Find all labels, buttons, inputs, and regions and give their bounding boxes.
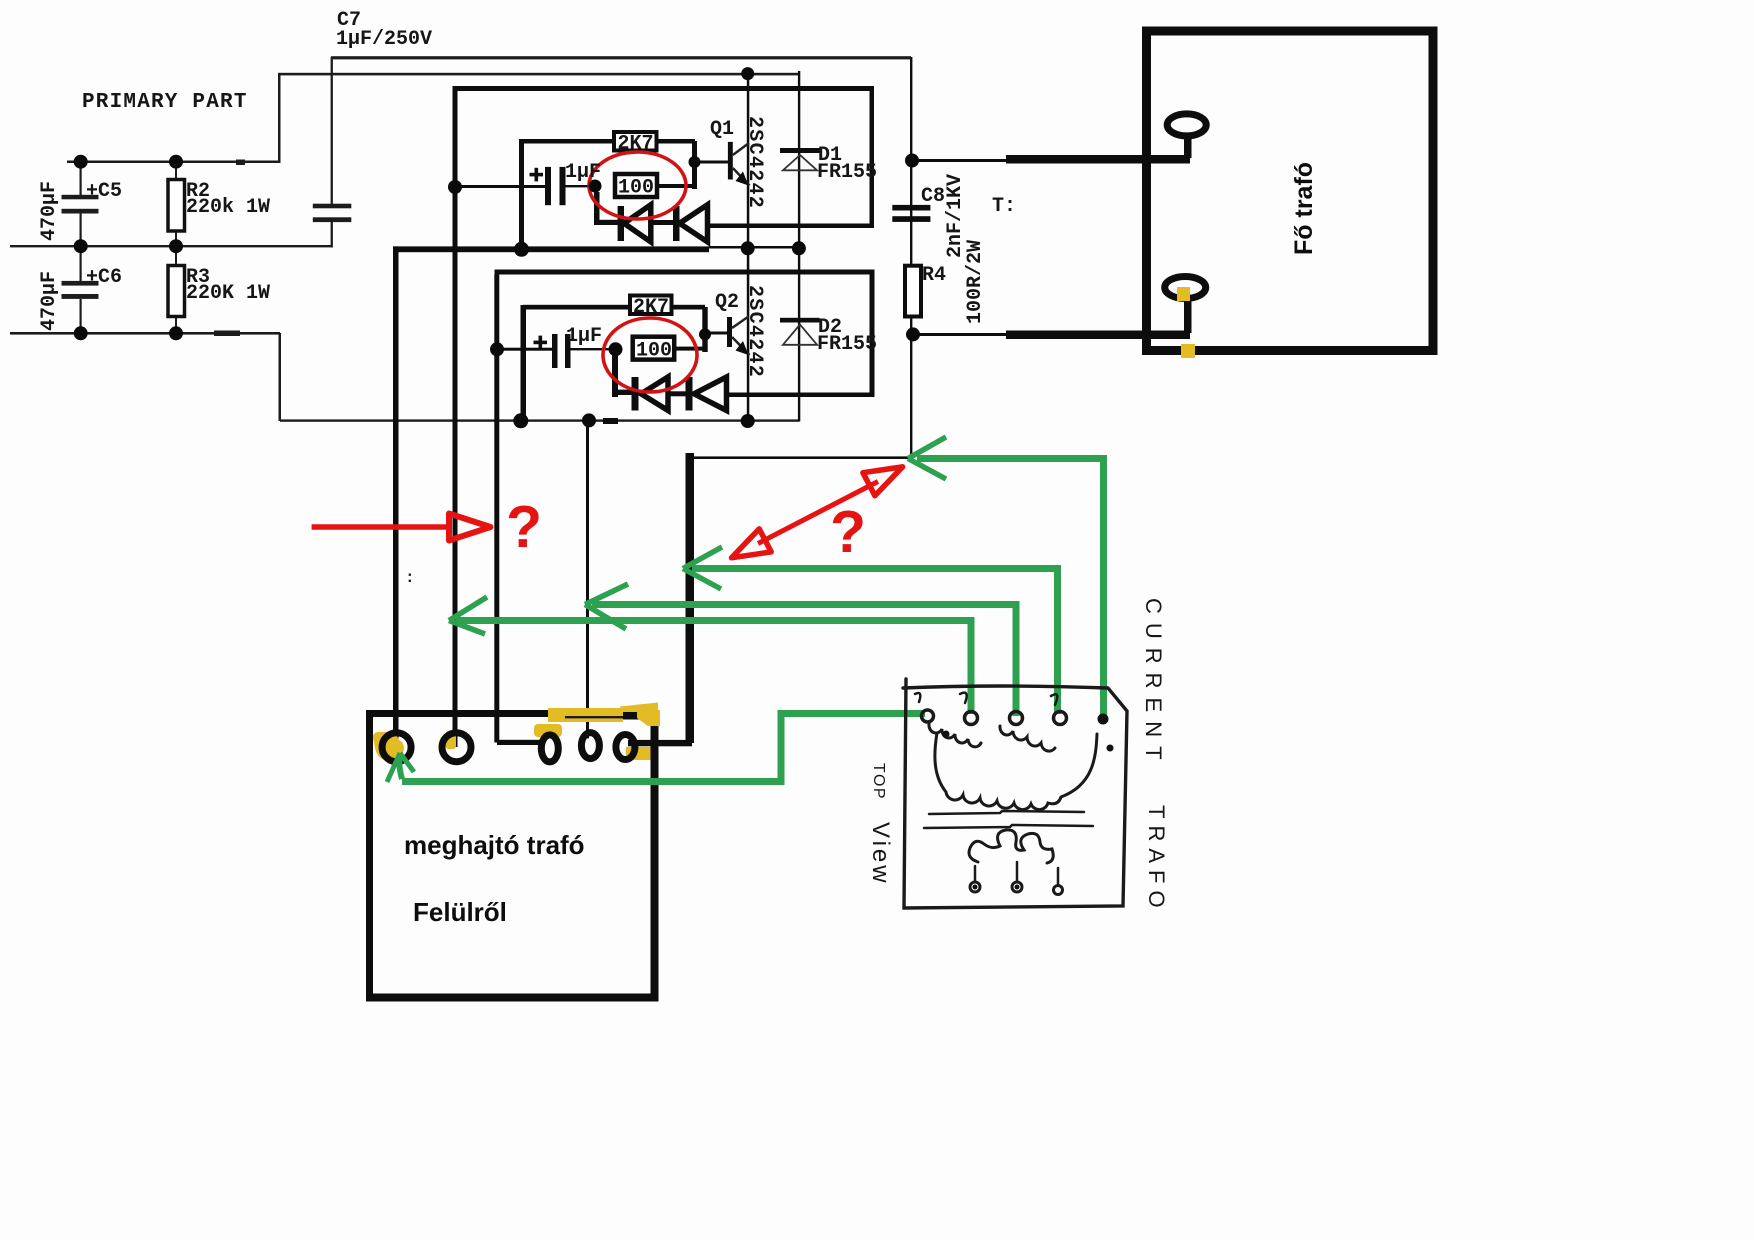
svg-text:FR155: FR155 [817, 333, 877, 356]
svg-text:?: ? [506, 494, 542, 560]
svg-text:+C5: +C5 [86, 180, 122, 203]
svg-text:100R/2W: 100R/2W [964, 240, 987, 324]
svg-text:TRAFO: TRAFO [1144, 805, 1169, 915]
svg-text:220k 1W: 220k 1W [186, 196, 270, 219]
svg-text:2SC4242: 2SC4242 [743, 116, 766, 209]
svg-text:2SC4242: 2SC4242 [743, 285, 766, 378]
svg-text:Q2: Q2 [715, 291, 739, 314]
svg-text:220K 1W: 220K 1W [186, 282, 270, 305]
svg-text:R4: R4 [922, 264, 946, 287]
svg-text::: : [405, 569, 415, 587]
svg-text:470µF: 470µF [38, 181, 61, 241]
svg-text:1µF/250V: 1µF/250V [336, 28, 432, 51]
svg-text:2K7: 2K7 [618, 133, 654, 156]
svg-text:100: 100 [618, 177, 654, 200]
svg-text:Q1: Q1 [710, 118, 734, 141]
svg-text:T:: T: [992, 195, 1016, 218]
svg-text:Felülről: Felülről [413, 897, 507, 927]
svg-text:TOP: TOP [870, 763, 887, 800]
svg-text:2K7: 2K7 [633, 296, 669, 319]
svg-text:470µF: 470µF [38, 271, 61, 331]
svg-text:+C6: +C6 [86, 266, 122, 289]
svg-text:FR155: FR155 [817, 161, 877, 184]
svg-text:?: ? [830, 499, 866, 565]
svg-text:CURRENT: CURRENT [1141, 598, 1166, 769]
svg-text:View: View [867, 822, 894, 886]
svg-text:meghajtó trafó: meghajtó trafó [404, 830, 585, 860]
svg-text:Fő trafó: Fő trafó [1290, 162, 1318, 255]
svg-text:100: 100 [636, 340, 672, 363]
svg-text:1µF: 1µF [566, 325, 602, 348]
svg-text:1µF: 1µF [565, 161, 601, 184]
svg-text:PRIMARY PART: PRIMARY PART [82, 91, 248, 114]
svg-text:C8: C8 [921, 185, 945, 208]
